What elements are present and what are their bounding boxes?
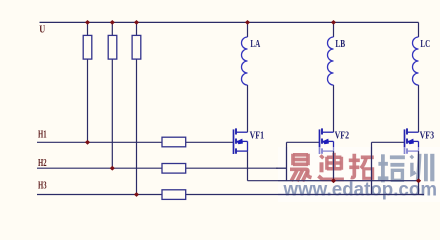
wire LC top	[418, 22, 420, 37]
svg-text:VF1: VF1	[250, 131, 265, 142]
watermark hanzi yi	[290, 154, 312, 182]
wire LA to VF1 drain	[247, 85, 249, 132]
wire VF3 source overdraw	[418, 151, 420, 194]
net H2 overdraw	[276, 167, 287, 169]
inductor LC	[413, 37, 419, 85]
resistor R3	[132, 35, 141, 59]
inductor LB	[328, 37, 334, 85]
transistor VF1	[234, 128, 248, 154]
svg-text:VF3: VF3	[420, 131, 435, 142]
junction dot H3/R3	[134, 192, 139, 197]
junction dot bus/VF3 overdraw	[416, 178, 421, 183]
junction dot bus/VF2 source	[331, 178, 336, 183]
transistor VF3	[405, 128, 419, 154]
svg-text:U: U	[39, 24, 45, 35]
net H2	[37, 167, 287, 169]
wire bottom bus overdraw	[278, 180, 419, 182]
resistor R2	[108, 35, 117, 59]
wire LC to VF3 drain	[418, 85, 420, 132]
resistor R1	[83, 35, 92, 59]
watermark hanzi di	[318, 153, 344, 180]
wire VF1 source down	[247, 151, 249, 181]
wire VF2 source overdraw	[333, 151, 335, 181]
watermark hanzi pei	[378, 154, 405, 182]
net H3 overdraw	[278, 194, 424, 196]
wire R1 top	[87, 22, 89, 35]
junction dot U/LB	[331, 20, 336, 25]
wire riser to VF2 gate	[286, 142, 288, 180]
resistor R4	[162, 137, 186, 147]
transistor VF2	[320, 128, 334, 154]
watermark background veil	[278, 147, 440, 202]
wire VF2 source down	[333, 151, 335, 181]
svg-text:LC: LC	[420, 39, 430, 50]
svg-text:LA: LA	[250, 39, 260, 50]
wire VF3 source down	[418, 151, 420, 194]
junction dot bus/VF2 overdraw	[331, 178, 336, 183]
svg-text:H3: H3	[38, 180, 47, 191]
net H3	[37, 194, 424, 196]
wire R1 to H1	[87, 59, 89, 142]
wire bottom bus	[248, 180, 419, 182]
resistor R5	[162, 164, 186, 174]
watermark hanzi tuo	[349, 154, 374, 179]
wire riser to VF3 gate	[371, 142, 373, 194]
resistor R6	[162, 190, 186, 200]
wire R2 to H2	[111, 59, 113, 168]
junction dot H1/R1	[85, 140, 90, 145]
junction dot bus/VF3 source	[416, 178, 421, 183]
svg-text:www.edatop.com: www.edatop.com	[283, 180, 437, 201]
watermark hanzi xun	[411, 154, 433, 182]
net H1	[37, 141, 234, 143]
wire riser VF2 gate overdraw	[286, 147, 288, 181]
svg-text:H1: H1	[38, 130, 47, 141]
wire VF3 gate lead	[372, 141, 405, 143]
svg-text:H2: H2	[38, 158, 47, 169]
power rail U	[40, 21, 419, 23]
wire LB top	[333, 22, 335, 37]
junction dot U/R2	[110, 20, 115, 25]
wire R3 to H3	[136, 59, 138, 194]
junction dot H2/R2	[110, 166, 115, 171]
wire R3 top	[136, 22, 138, 35]
wire LB to VF2 drain	[333, 85, 335, 132]
svg-text:VF2: VF2	[335, 131, 350, 142]
wire LA top	[247, 22, 249, 37]
inductor LA	[242, 37, 248, 85]
junction dot U/R3	[134, 20, 139, 25]
svg-text:LB: LB	[335, 39, 345, 50]
wire VF2 gate lead	[287, 141, 320, 143]
junction dot U/LA	[245, 20, 250, 25]
wire riser VF3 gate overdraw	[371, 147, 373, 195]
wire R2 top	[111, 22, 113, 35]
junction dot U/R1	[85, 20, 90, 25]
